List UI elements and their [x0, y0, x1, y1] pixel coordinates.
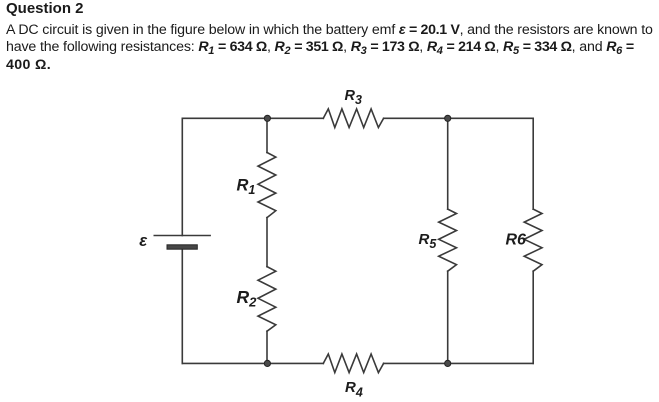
- heading: [6, 1, 84, 17]
- wire: bottom horizontal from R4 end to bottom-right corner: [384, 362, 534, 364]
- paragraph line 2: [6, 39, 634, 57]
- resistor R6 zigzag: [524, 209, 542, 271]
- wire: bottom-left horizontal (left rail to R4 start): [182, 362, 323, 364]
- paragraph line 3: [6, 57, 51, 74]
- wire: right rail lower (R6 to bottom-right corner): [532, 271, 534, 363]
- svg-text:R4: R4: [345, 379, 363, 399]
- svg-text:R6: R6: [506, 231, 527, 248]
- resistor R3 zigzag: [323, 109, 383, 128]
- resistor R4 zigzag: [323, 354, 383, 373]
- resistor R1 zigzag: [258, 153, 276, 218]
- battery bottom plate (short thick): [167, 245, 197, 249]
- svg-text:R1: R1: [237, 177, 256, 198]
- wire: top-left horizontal (left rail to R3 start): [182, 117, 323, 119]
- svg-text:R2: R2: [237, 287, 258, 310]
- resistor R5 zigzag: [439, 209, 457, 271]
- wire: middle branch lower (R2 to bottom wire): [266, 331, 268, 363]
- node: top-right junction: [445, 115, 451, 121]
- battery top plate (long thin): [154, 235, 210, 237]
- wire: right rail upper (top-right corner to R6): [532, 118, 534, 209]
- wire: R5 branch upper: [447, 118, 449, 209]
- wire: middle branch between R1 and R2: [266, 218, 268, 267]
- resistor R2 zigzag: [258, 267, 276, 332]
- node: top-left junction: [264, 115, 270, 121]
- svg-text:ε: ε: [139, 232, 148, 250]
- wire: left rail upper segment (top wire to battery top plate): [181, 118, 183, 235]
- svg-text:R5: R5: [419, 231, 438, 251]
- wire: top horizontal from R3 end to top-right corner: [384, 117, 534, 119]
- paragraph line 1: [6, 22, 653, 39]
- node: bottom-right junction: [445, 360, 451, 366]
- wire: R5 branch lower: [447, 271, 449, 363]
- svg-text:R3: R3: [345, 88, 362, 107]
- node: bottom-left junction: [264, 360, 270, 366]
- wire: middle branch upper (top wire to R1): [266, 118, 268, 152]
- wire: left rail lower segment (battery bottom plate to bottom wire): [181, 249, 183, 363]
